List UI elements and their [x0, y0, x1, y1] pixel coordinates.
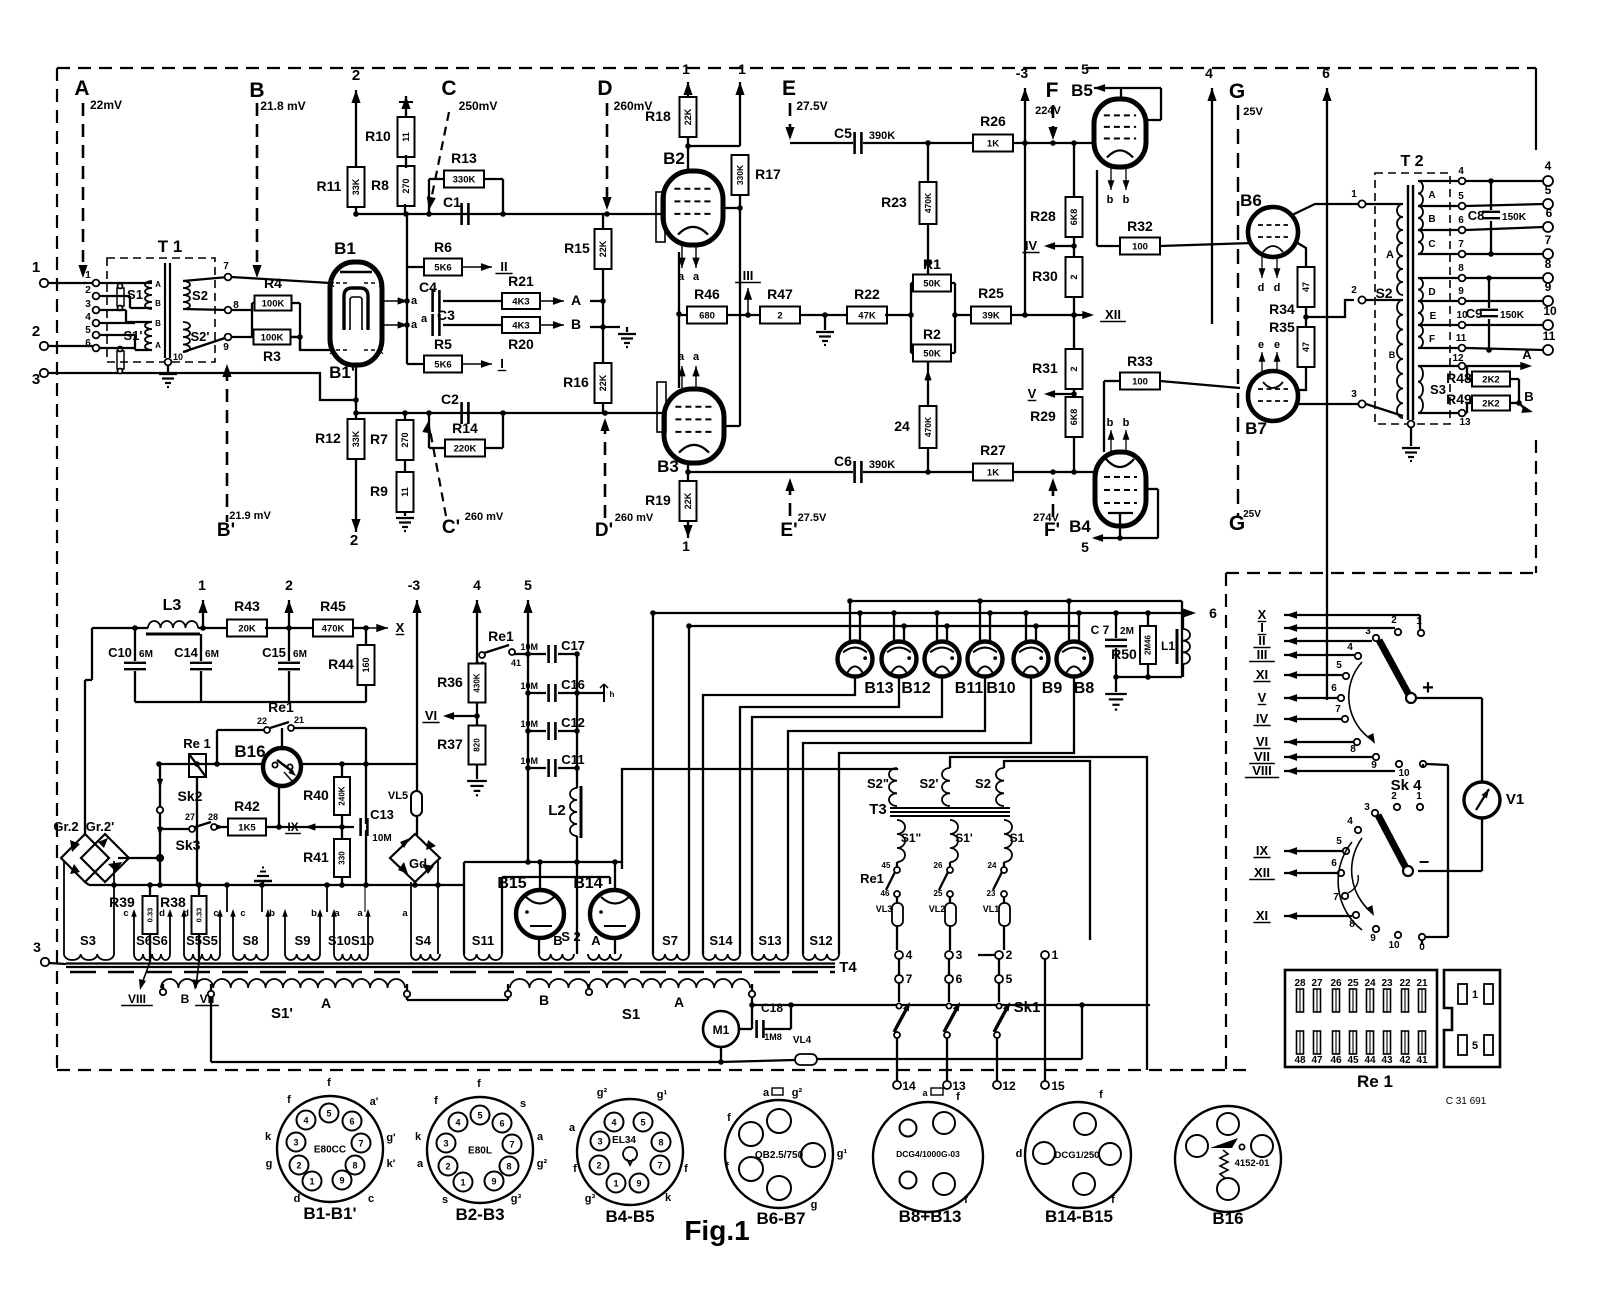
svg-text:8: 8 — [352, 1161, 357, 1171]
svg-text:R7: R7 — [370, 431, 388, 447]
tube B7 — [1245, 371, 1298, 438]
svg-text:6: 6 — [1322, 65, 1330, 81]
svg-text:100K: 100K — [261, 332, 284, 343]
routing T3 S2d link — [950, 757, 1147, 1005]
T1 core — [165, 263, 170, 358]
svg-text:B11: B11 — [955, 680, 984, 697]
T2 secondary section E — [1418, 301, 1462, 325]
resistor R30 — [1032, 257, 1082, 297]
tube B5 — [1071, 81, 1146, 167]
svg-text:T4: T4 — [839, 959, 857, 976]
svg-text:g²: g² — [597, 1087, 608, 1099]
svg-text:g³: g³ — [511, 1193, 522, 1205]
svg-text:9: 9 — [636, 1179, 641, 1189]
inductor L1 — [1161, 613, 1190, 677]
svg-text:5: 5 — [1081, 61, 1089, 77]
svg-text:R40: R40 — [303, 787, 329, 803]
output terminal 6 — [1543, 206, 1553, 232]
svg-text:R8: R8 — [371, 177, 389, 193]
svg-text:f: f — [327, 1077, 331, 1089]
svg-text:46: 46 — [881, 889, 890, 898]
lower switch contact 9 — [1370, 926, 1379, 944]
svg-text:VL5: VL5 — [388, 790, 408, 802]
upper switch contact 10 — [1396, 761, 1410, 779]
transformer T1 enclosure — [107, 237, 215, 362]
terminal circle 13 — [943, 1079, 966, 1093]
svg-text:R30: R30 — [1032, 268, 1058, 284]
svg-text:27.5V: 27.5V — [798, 512, 827, 524]
resistor R24 — [894, 362, 936, 475]
signal bus vertical at B1 outputs — [404, 214, 410, 364]
svg-text:330: 330 — [338, 851, 347, 865]
svg-text:C: C — [441, 77, 456, 100]
winding S13 — [752, 933, 788, 960]
resistor R32 — [1097, 170, 1160, 255]
svg-text:S11: S11 — [472, 933, 494, 948]
svg-text:270: 270 — [401, 178, 411, 193]
svg-text:3: 3 — [1351, 389, 1357, 400]
svg-text:a: a — [402, 908, 408, 919]
resistor R45 — [313, 598, 353, 637]
resistor R8 — [371, 166, 414, 206]
svg-text:R1: R1 — [923, 256, 941, 272]
neon VL5 — [388, 790, 422, 816]
T3 secondary S2' — [920, 768, 951, 806]
svg-text:6K8: 6K8 — [1069, 209, 1079, 226]
svg-text:10: 10 — [1543, 304, 1557, 318]
svg-text:C1: C1 — [443, 194, 461, 210]
svg-text:250mV: 250mV — [459, 99, 498, 113]
reference line E' — [780, 478, 827, 541]
svg-text:1: 1 — [613, 1179, 618, 1189]
resistor R39 — [109, 885, 157, 962]
svg-text:6: 6 — [1209, 605, 1217, 621]
svg-text:R21: R21 — [508, 273, 534, 289]
svg-text:S13: S13 — [758, 933, 781, 948]
svg-text:s: s — [442, 1194, 448, 1206]
svg-text:+: + — [1422, 677, 1434, 699]
terminal circle 6 — [945, 959, 963, 986]
svg-text:22K: 22K — [598, 240, 608, 257]
routing T3 S2dd to B15 box — [622, 768, 897, 862]
svg-text:R39: R39 — [109, 894, 135, 910]
arrow X psu — [352, 620, 405, 635]
svg-text:E80CC: E80CC — [314, 1145, 346, 1156]
arrow -3 top — [1016, 65, 1030, 143]
svg-text:10M: 10M — [372, 833, 391, 844]
T4 labels — [271, 992, 684, 1023]
svg-text:3: 3 — [32, 371, 40, 388]
svg-text:2: 2 — [1006, 948, 1013, 962]
svg-text:R28: R28 — [1030, 208, 1056, 224]
resistor R10 — [365, 117, 414, 157]
svg-text:a: a — [411, 295, 418, 307]
bus double line — [66, 959, 857, 976]
svg-text:390K: 390K — [869, 130, 895, 142]
svg-text:160: 160 — [361, 657, 371, 672]
svg-text:S5S5: S5S5 — [186, 933, 218, 948]
arrow VI — [422, 703, 479, 726]
wire terminal1 to T1 pin1 — [48, 282, 96, 284]
svg-text:43: 43 — [1381, 1055, 1393, 1066]
reference line B' — [217, 364, 272, 541]
T2 ground — [1402, 421, 1420, 461]
T1 winding S2' secondary lower — [183, 322, 228, 352]
svg-text:10M: 10M — [520, 642, 538, 652]
outer frame right border upper — [1535, 68, 1537, 150]
svg-text:11: 11 — [400, 487, 410, 497]
T4 tap circles — [160, 984, 755, 997]
B4 bottom cap wire — [1094, 489, 1158, 541]
svg-text:S6S6: S6S6 — [136, 933, 168, 948]
svg-text:6M: 6M — [139, 649, 153, 660]
arrow 1 above R18 — [682, 61, 692, 98]
arrow V — [1028, 386, 1077, 401]
lower switch contact 7 — [1333, 875, 1358, 903]
svg-text:10M: 10M — [520, 681, 538, 691]
capacitor C2 — [441, 391, 468, 424]
svg-text:S4: S4 — [415, 933, 432, 948]
svg-text:1: 1 — [1416, 616, 1422, 627]
svg-text:6: 6 — [499, 1119, 504, 1129]
svg-text:2: 2 — [350, 532, 358, 549]
socket B2-B3 — [415, 1078, 548, 1224]
svg-text:9: 9 — [1371, 760, 1377, 771]
resistor R41 — [303, 827, 350, 885]
ground under C7 — [1105, 674, 1182, 709]
svg-text:b: b — [1123, 194, 1130, 206]
svg-text:6: 6 — [1546, 206, 1553, 220]
compartment divider horizontal — [1226, 572, 1536, 574]
svg-text:A: A — [674, 994, 684, 1010]
resistor R6 — [407, 239, 462, 276]
relay coil Re 1 — [183, 736, 210, 885]
svg-text:a: a — [763, 1087, 770, 1099]
svg-text:5: 5 — [1081, 539, 1089, 555]
svg-text:VL1: VL1 — [983, 904, 1000, 914]
svg-text:a: a — [693, 351, 700, 363]
svg-text:3: 3 — [293, 1138, 298, 1148]
svg-text:B5: B5 — [1071, 81, 1093, 100]
svg-text:R42: R42 — [234, 798, 260, 814]
winding tap letter a at x=337 — [334, 908, 340, 919]
svg-text:274V: 274V — [1033, 512, 1059, 524]
upper switch contact 4 — [1347, 642, 1361, 659]
svg-text:6: 6 — [1458, 215, 1464, 226]
lower switch contact 10 — [1388, 932, 1401, 951]
arrow 2 psu — [265, 577, 315, 631]
svg-text:28: 28 — [1294, 978, 1306, 989]
svg-text:7: 7 — [509, 1140, 514, 1150]
resistor R18 — [645, 97, 696, 137]
wire C1 line — [353, 211, 664, 217]
selector upper VII — [1249, 749, 1372, 764]
terminal circle 3 — [945, 948, 963, 962]
T2 secondary section S3 — [1418, 366, 1462, 413]
T2 pin 1 — [1351, 189, 1365, 208]
routing B13 to S14 left leg — [703, 676, 855, 954]
svg-text:S3: S3 — [1430, 382, 1446, 397]
svg-text:R4: R4 — [264, 275, 282, 291]
winding tap letter d at x=162 — [159, 908, 165, 919]
svg-text:II: II — [500, 259, 507, 274]
outer frame bottom border — [57, 1069, 1250, 1071]
svg-text:C17: C17 — [561, 638, 585, 653]
svg-text:4: 4 — [85, 312, 91, 323]
svg-text:R35: R35 — [1269, 319, 1295, 335]
svg-text:B16: B16 — [234, 742, 265, 761]
resistor R36 — [437, 664, 485, 703]
svg-text:B8: B8 — [1074, 680, 1095, 697]
svg-text:h: h — [610, 690, 615, 699]
svg-text:R34: R34 — [1269, 301, 1295, 317]
svg-text:R43: R43 — [234, 598, 260, 614]
svg-text:DCG4/1000G-03: DCG4/1000G-03 — [896, 1149, 960, 1159]
svg-text:VL3: VL3 — [876, 904, 893, 914]
arrow 4 vertical — [1205, 65, 1216, 324]
svg-text:g¹: g¹ — [837, 1148, 848, 1160]
B7 arrows e e — [1258, 339, 1281, 371]
arrow to A — [540, 292, 581, 308]
svg-text:C4: C4 — [419, 279, 437, 295]
terminal circle 1 — [1041, 948, 1059, 962]
winding S10 S10 — [324, 882, 374, 960]
svg-text:1: 1 — [309, 1177, 314, 1187]
svg-text:C 7: C 7 — [1091, 623, 1110, 637]
T2 secondary section F — [1418, 325, 1462, 348]
resistor R26 — [973, 113, 1013, 152]
compartment divider vertical — [1225, 573, 1227, 1070]
B1 anode output arrows — [382, 295, 418, 331]
resistor R33 — [1120, 353, 1240, 390]
svg-text:f: f — [725, 1161, 729, 1173]
svg-text:27: 27 — [185, 812, 195, 822]
svg-text:6M: 6M — [205, 649, 219, 660]
resistor R22 — [847, 286, 887, 324]
wire -3 down to XII node — [1024, 143, 1026, 315]
B3 cathode arrows — [678, 351, 700, 388]
svg-text:g: g — [811, 1199, 818, 1211]
relay connector Re1 mating half — [1444, 970, 1500, 1067]
tube B15 — [497, 862, 564, 954]
arrow III — [727, 268, 761, 318]
wire tap11 to terminal 11 — [1466, 347, 1544, 353]
tube B8 — [1057, 598, 1095, 697]
wire -3 column — [416, 628, 418, 835]
T2 tap 12 — [1452, 353, 1465, 369]
svg-text:22K: 22K — [598, 374, 608, 391]
wire tap4 to terminal 4 — [1466, 178, 1544, 184]
svg-text:6: 6 — [1331, 858, 1337, 869]
svg-text:V1: V1 — [1506, 791, 1524, 808]
output terminal 9 — [1543, 280, 1553, 306]
terminal 3 — [32, 369, 48, 388]
svg-text:7: 7 — [223, 261, 229, 272]
svg-text:B1: B1 — [334, 239, 356, 258]
winding S9 — [259, 882, 323, 960]
selector upper VIII — [1245, 763, 1395, 778]
wire T1 pin7 to B1 grid — [231, 277, 330, 283]
arrow to B — [540, 316, 581, 332]
svg-text:X: X — [396, 620, 405, 635]
anode rail upper — [850, 601, 1182, 677]
svg-text:-3: -3 — [1016, 65, 1029, 81]
svg-text:1K: 1K — [987, 467, 999, 478]
svg-text:R5: R5 — [434, 336, 452, 352]
svg-text:F: F — [1046, 79, 1059, 102]
ground near B2 grid — [603, 327, 636, 347]
svg-text:XI: XI — [1256, 667, 1268, 682]
svg-text:470K: 470K — [923, 192, 933, 213]
svg-text:R20: R20 — [508, 336, 534, 352]
T4 bottom loop — [211, 997, 721, 1062]
svg-text:1M8: 1M8 — [764, 1032, 782, 1042]
svg-text:S8: S8 — [243, 933, 259, 948]
svg-text:2: 2 — [296, 1161, 301, 1171]
svg-text:23: 23 — [1381, 978, 1393, 989]
wire R47 to R22 — [800, 312, 849, 318]
svg-text:2: 2 — [596, 1161, 601, 1171]
winding S2 A section — [561, 929, 621, 960]
resistor R35 — [1269, 319, 1314, 390]
meter V1 — [1416, 698, 1524, 871]
terminal circle 14 — [893, 1079, 943, 1098]
svg-text:f: f — [684, 1163, 688, 1175]
switch Sk1 blade 1 — [894, 983, 910, 1081]
svg-text:5: 5 — [1336, 660, 1342, 671]
socket B1-B1' — [265, 1077, 396, 1223]
svg-text:R33: R33 — [1127, 353, 1153, 369]
svg-text:M1: M1 — [713, 1023, 730, 1037]
svg-text:3: 3 — [1364, 802, 1370, 813]
svg-text:0.33: 0.33 — [146, 908, 155, 923]
winding S12 — [803, 933, 839, 960]
tube B13 — [838, 598, 894, 697]
svg-text:C5: C5 — [834, 125, 852, 141]
T1 pin 7 — [223, 261, 231, 280]
svg-text:E': E' — [780, 520, 797, 541]
svg-text:3: 3 — [443, 1139, 448, 1149]
wire R32 to B6 — [1160, 243, 1252, 246]
wire tap6 to terminal 6 — [1466, 227, 1544, 230]
svg-text:4: 4 — [1458, 166, 1464, 177]
T4 primary winding S1' — [161, 979, 405, 988]
svg-text:R31: R31 — [1032, 360, 1058, 376]
resistor R16 — [563, 363, 611, 413]
svg-text:B: B — [181, 992, 190, 1006]
wire A node to divider — [590, 300, 603, 302]
svg-text:IV: IV — [1256, 711, 1269, 726]
svg-text:S9: S9 — [295, 933, 311, 948]
svg-text:B9: B9 — [1042, 680, 1063, 697]
svg-text:d: d — [1258, 282, 1265, 294]
svg-text:B: B — [155, 299, 161, 308]
svg-text:6K8: 6K8 — [1069, 409, 1079, 426]
svg-text:11: 11 — [1456, 333, 1467, 344]
capacitor C11 — [520, 752, 584, 777]
svg-text:C16: C16 — [561, 677, 585, 692]
wire R10-R8 — [405, 155, 407, 168]
terminal 3 bottom — [33, 939, 66, 966]
relay contact Re1 22 41 — [475, 628, 528, 670]
svg-text:330K: 330K — [735, 164, 745, 185]
svg-text:c: c — [213, 908, 218, 919]
svg-text:C2: C2 — [441, 391, 459, 407]
B5 cathode arrows b b — [1107, 167, 1130, 206]
winding tap letter c at x=216 — [213, 908, 218, 919]
svg-text:390K: 390K — [869, 459, 895, 471]
svg-text:R3: R3 — [263, 348, 281, 364]
svg-text:S1": S1" — [901, 831, 921, 845]
svg-text:S2': S2' — [920, 776, 939, 791]
resistor R15 — [564, 214, 611, 269]
svg-text:430K: 430K — [473, 673, 482, 692]
svg-text:330K: 330K — [453, 174, 476, 185]
wire left feed — [85, 628, 148, 834]
resistor R44 — [328, 628, 374, 702]
svg-text:R12: R12 — [315, 430, 341, 446]
svg-text:B1': B1' — [329, 363, 355, 382]
T2 pin 2 — [1351, 285, 1365, 304]
svg-text:12: 12 — [1002, 1079, 1016, 1093]
anode rail lower — [689, 625, 1080, 627]
svg-text:46: 46 — [1330, 1055, 1342, 1066]
svg-text:1K: 1K — [987, 138, 999, 149]
svg-text:R45: R45 — [320, 598, 346, 614]
R1 R2 divider right bracket — [951, 283, 972, 353]
svg-text:g³: g³ — [585, 1193, 596, 1205]
svg-text:4: 4 — [906, 948, 913, 962]
T2 primary winding A — [1366, 204, 1403, 295]
label Sk4 — [1391, 777, 1423, 794]
capacitor C13 — [361, 807, 394, 844]
svg-text:d: d — [1016, 1148, 1023, 1160]
svg-text:4: 4 — [455, 1118, 460, 1128]
svg-text:B8+B13: B8+B13 — [899, 1207, 962, 1226]
svg-text:1: 1 — [1416, 791, 1422, 802]
output terminal 11 — [1543, 329, 1556, 355]
svg-text:R2: R2 — [923, 326, 941, 342]
resistor R31 — [1032, 349, 1082, 389]
svg-text:f: f — [1099, 1089, 1103, 1101]
svg-text:2M: 2M — [1120, 626, 1134, 637]
terminal circle 7 — [895, 959, 913, 986]
psu lower rail — [135, 701, 366, 703]
relay contact Re1 21 22 — [217, 699, 366, 764]
svg-text:k: k — [415, 1131, 422, 1143]
resistor R37 — [437, 726, 485, 765]
motor M1 — [703, 997, 755, 1065]
svg-text:A: A — [571, 292, 581, 308]
svg-text:Re1: Re1 — [860, 871, 884, 886]
svg-text:C14: C14 — [174, 645, 199, 660]
svg-text:27: 27 — [1311, 978, 1323, 989]
svg-text:470K: 470K — [923, 416, 933, 437]
lower switch blade — [1378, 815, 1429, 876]
drawing number — [1446, 1096, 1487, 1107]
wire B node to divider — [590, 326, 603, 328]
svg-text:R41: R41 — [303, 849, 329, 865]
resistor R20 — [502, 317, 540, 352]
svg-text:T3: T3 — [869, 801, 887, 818]
svg-text:10M: 10M — [520, 719, 538, 729]
resistor R14 — [429, 413, 503, 457]
svg-text:7: 7 — [358, 1139, 363, 1149]
svg-text:R47: R47 — [767, 286, 793, 302]
svg-text:11: 11 — [401, 132, 411, 142]
svg-text:a: a — [537, 1131, 544, 1143]
svg-text:9: 9 — [339, 1176, 344, 1186]
